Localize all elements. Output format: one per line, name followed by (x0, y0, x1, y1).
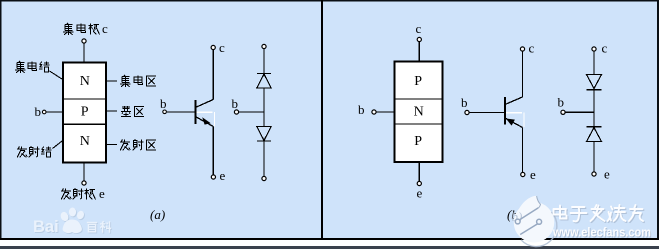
emitter diagonal (505, 118, 523, 128)
leader line to collector junction (50, 71, 64, 80)
emitter terminal (417, 181, 421, 185)
wire top (263, 49, 265, 73)
svg-text:b: b (160, 96, 167, 111)
svg-text:www.elecfans.com: www.elecfans.com (552, 226, 651, 240)
collector diagonal (505, 97, 523, 105)
label 集电区 (120, 75, 156, 87)
outer left border (0, 0, 2, 249)
circuit traces (515, 208, 541, 235)
white artifact line horizontal (196, 111, 212, 113)
terminal b (561, 110, 565, 114)
emitter terminal (82, 181, 86, 185)
terminal b (234, 110, 238, 114)
bottom dark band (0, 246, 659, 249)
wire collector vertical (212, 50, 214, 100)
wire middle (593, 90, 595, 127)
bottom white band (0, 240, 659, 246)
wire collector vertical (522, 52, 524, 98)
diode D4 cathode bar (587, 126, 602, 128)
wire top (593, 51, 595, 74)
terminal c (520, 47, 524, 51)
wire base (469, 112, 505, 114)
junction divider 2 (63, 123, 106, 125)
label 集电极 c (63, 21, 108, 36)
diode D3 cathode bar (587, 89, 602, 91)
terminal c (211, 45, 215, 49)
电 (554, 206, 567, 219)
dash to 集电区 (106, 80, 117, 82)
wire b (239, 111, 264, 113)
circle shadow lower-right (521, 212, 557, 247)
diode D2 triangle (pointing down) (257, 127, 271, 141)
emitter arrowhead (pointing into base) (506, 119, 515, 126)
wire emitter vertical (212, 127, 214, 176)
NPN structure box (63, 63, 106, 163)
svg-text:c: c (529, 41, 535, 56)
terminal top (262, 44, 266, 48)
PNP structure box (395, 62, 443, 163)
terminal bottom (592, 172, 596, 176)
烧 (608, 205, 626, 221)
transistor base bar (504, 97, 506, 125)
transistor base bar (194, 100, 196, 124)
svg-text:N: N (80, 134, 90, 149)
svg-text:c: c (416, 21, 422, 36)
diode D1 cathode bar (257, 73, 271, 75)
svg-text:e: e (530, 167, 536, 182)
svg-text:b: b (558, 95, 565, 110)
wire base lead (376, 111, 394, 113)
paw toes (59, 211, 69, 222)
diode D1 triangle (pointing up) (257, 74, 271, 88)
junction divider 1 (395, 98, 443, 100)
collector diagonal (195, 100, 213, 108)
panel divider (321, 0, 323, 240)
label 发射区 (120, 139, 156, 150)
label 发射结 (17, 146, 52, 157)
label 基区 (121, 106, 144, 116)
svg-text:P: P (414, 134, 422, 149)
collector terminal (82, 39, 86, 43)
wire bottom (263, 141, 265, 176)
dash to 发射区 (106, 144, 117, 146)
svg-text:c: c (219, 40, 225, 55)
junction divider 2 (395, 123, 443, 125)
wire base (167, 111, 195, 113)
wire emitter vertical (522, 128, 524, 173)
terminal top (592, 47, 596, 51)
wire bottom (593, 142, 595, 172)
svg-text:b: b (232, 96, 239, 111)
svg-text:b: b (35, 104, 42, 119)
terminal b (465, 110, 469, 114)
子 (571, 207, 587, 221)
leaf right edge shadow (537, 196, 541, 208)
svg-text:N: N (414, 104, 424, 119)
title shadow (555, 206, 645, 222)
diode D2 cathode bar (257, 140, 271, 142)
emitter arrowhead (202, 117, 211, 124)
wire b (565, 111, 594, 113)
svg-text:b: b (358, 102, 365, 117)
svg-text:e: e (99, 186, 105, 201)
white artifact line vertical (214, 112, 216, 126)
svg-text:e: e (417, 186, 423, 201)
bottom border line (0, 238, 659, 240)
wire collector lead (418, 42, 420, 62)
white artifact line vertical (523, 113, 525, 127)
leaf (517, 196, 541, 215)
label 集电结 (15, 61, 50, 73)
wire emitter lead (83, 163, 85, 182)
wire collector lead (83, 44, 85, 63)
diode D3 triangle (pointing down) (587, 75, 602, 89)
svg-text:c: c (602, 41, 608, 56)
terminal b (163, 110, 167, 114)
svg-text:Bai: Bai (33, 218, 59, 236)
collector terminal (417, 37, 421, 41)
outer top border (0, 0, 659, 2)
友 (629, 205, 643, 221)
svg-text:P: P (81, 104, 89, 119)
label 发射极 e (61, 186, 105, 201)
main circle (514, 202, 555, 243)
svg-text:P: P (414, 74, 422, 89)
svg-text:c: c (102, 21, 108, 36)
发 (591, 205, 605, 221)
svg-text:b: b (461, 95, 468, 110)
wire middle (263, 88, 265, 127)
diode D4 triangle (pointing up) (587, 128, 602, 142)
dash to 基区 (106, 110, 117, 112)
svg-text:e: e (220, 168, 226, 183)
emitter diagonal (195, 117, 213, 127)
terminal b (372, 110, 376, 114)
paw pad (63, 220, 82, 234)
title 电子发烧友 (stylized white) (554, 205, 644, 221)
terminal bottom (262, 176, 266, 180)
terminal e (211, 175, 215, 179)
junction divider 1 (63, 98, 106, 100)
terminal e (521, 172, 525, 176)
wire emitter lead (418, 162, 420, 182)
svg-text:(a): (a) (150, 207, 165, 222)
wire base lead (46, 111, 63, 113)
svg-text:e: e (604, 167, 610, 182)
leader line to emitter junction (53, 140, 65, 149)
outer right border (657, 0, 659, 240)
svg-text:N: N (80, 74, 90, 89)
white artifact line horizontal (506, 112, 522, 114)
